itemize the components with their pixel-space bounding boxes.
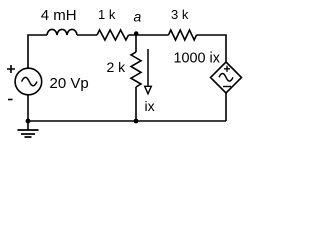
- svg-text:2 k: 2 k: [107, 59, 127, 75]
- current arrow ix open head: [145, 86, 152, 94]
- wire top-left corner to inductor: [28, 35, 47, 68]
- voltage source Vs circle: [15, 68, 42, 95]
- resistor R 3 k: [169, 30, 197, 40]
- wire inductor to R 1k: [77, 34, 97, 36]
- wire source bottom to ground junction: [27, 95, 29, 121]
- svg-text:ix: ix: [145, 98, 155, 114]
- bottom wire: [28, 120, 226, 122]
- wire R 3k to top-right corner down to dependent source: [197, 35, 227, 62]
- label 4 mH: [41, 7, 77, 24]
- svg-text:1 k: 1 k: [98, 7, 116, 22]
- label 20 Vp: [50, 75, 89, 92]
- dependent source minus sign: [223, 86, 231, 88]
- label node a: [134, 9, 142, 25]
- junction dot bottom-left: [26, 119, 31, 124]
- dependent source plus sign: [224, 66, 230, 72]
- ground symbol: [18, 121, 39, 137]
- label ix below arrow: [145, 98, 155, 114]
- wire R 1k to R 3k through node a: [129, 34, 169, 36]
- label 3 k: [171, 7, 189, 22]
- inductor L 4 mH: [47, 29, 77, 35]
- resistor R 2 k vertical: [131, 52, 141, 87]
- wire dependent source bottom to bottom wire: [225, 93, 227, 121]
- wire R 2k to bottom wire: [135, 87, 137, 121]
- dependent source sine symbol: [219, 74, 233, 82]
- label 2 k: [107, 59, 127, 75]
- svg-text:3 k: 3 k: [171, 7, 189, 22]
- svg-text:1000 ix: 1000 ix: [174, 50, 221, 66]
- label 1 k: [98, 7, 116, 22]
- resistor R 1 k: [97, 30, 129, 40]
- svg-text:20 Vp: 20 Vp: [50, 75, 89, 92]
- node a junction dot: [134, 31, 139, 36]
- current arrow ix line: [147, 49, 149, 87]
- voltage source sine symbol: [22, 77, 37, 85]
- dependent source diamond 1000 ix: [211, 62, 242, 93]
- label 1000 ix: [174, 50, 221, 66]
- svg-text:4 mH: 4 mH: [41, 7, 77, 24]
- voltage source minus sign: [8, 99, 13, 101]
- wire node a down to R 2k: [135, 34, 137, 52]
- svg-text:a: a: [134, 9, 142, 25]
- voltage source plus sign: [7, 65, 15, 73]
- junction dot at bottom of 2k branch: [134, 119, 139, 124]
